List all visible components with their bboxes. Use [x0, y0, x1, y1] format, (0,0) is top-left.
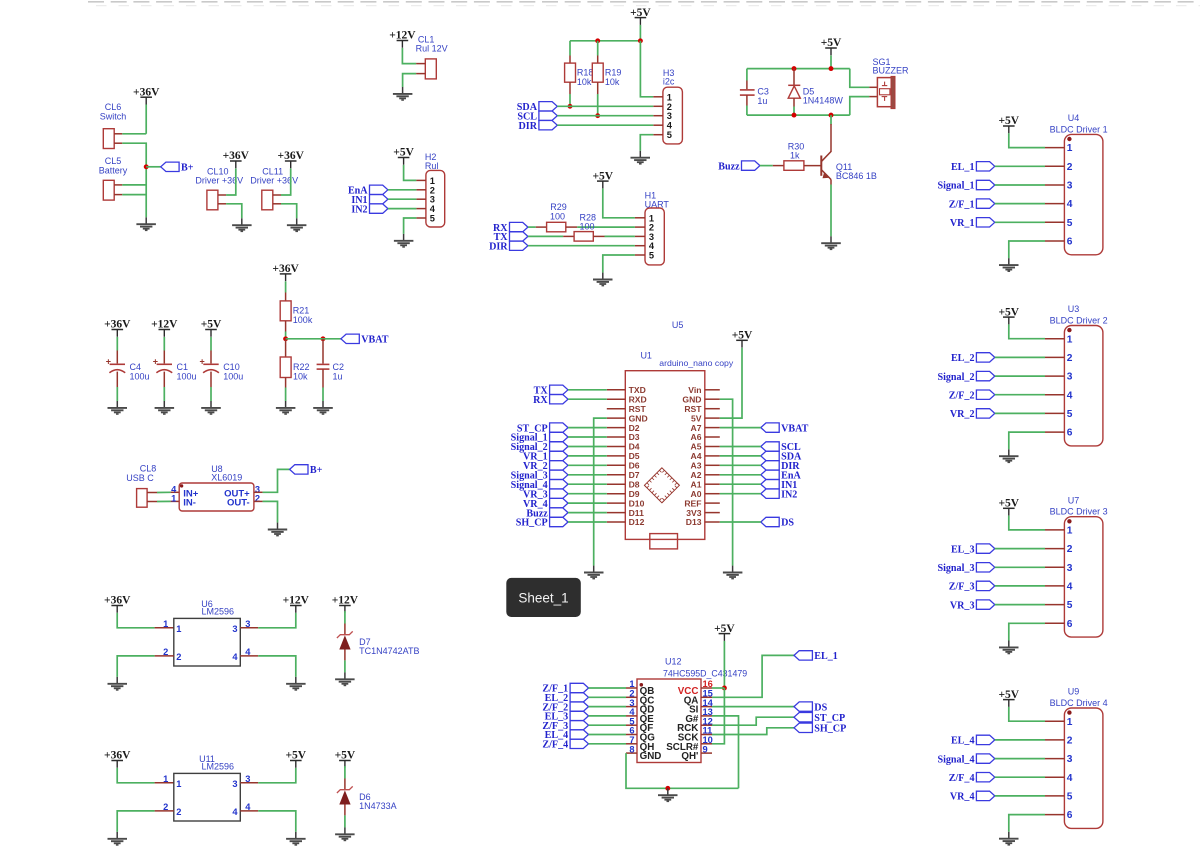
svg-text:EL_1: EL_1 — [814, 651, 838, 662]
svg-text:A1: A1 — [691, 479, 702, 489]
svg-text:1N4733A: 1N4733A — [359, 801, 397, 811]
svg-text:1u: 1u — [333, 371, 343, 381]
svg-text:5: 5 — [649, 251, 654, 261]
svg-text:100u: 100u — [130, 371, 150, 381]
svg-text:1: 1 — [163, 619, 168, 629]
svg-text:+12V: +12V — [332, 595, 359, 607]
svg-text:+36V: +36V — [104, 750, 131, 762]
svg-text:3: 3 — [1067, 372, 1073, 383]
svg-text:C2: C2 — [333, 362, 345, 372]
svg-text:4: 4 — [232, 652, 238, 662]
svg-text:3: 3 — [667, 111, 672, 121]
svg-text:5: 5 — [430, 214, 435, 224]
svg-text:U3: U3 — [1068, 304, 1080, 314]
svg-text:D13: D13 — [686, 517, 702, 527]
svg-text:B+: B+ — [310, 465, 323, 476]
svg-text:LM2596: LM2596 — [202, 762, 235, 772]
svg-text:IN-: IN- — [183, 497, 196, 508]
svg-text:2: 2 — [176, 807, 181, 817]
svg-text:Battery: Battery — [99, 166, 128, 176]
svg-text:4: 4 — [232, 807, 238, 817]
svg-text:+5V: +5V — [998, 306, 1019, 318]
svg-text:Signal_4: Signal_4 — [937, 754, 974, 765]
svg-text:+5V: +5V — [998, 689, 1019, 701]
svg-text:+36V: +36V — [104, 595, 131, 607]
svg-text:arduino_nano copy: arduino_nano copy — [659, 358, 734, 368]
svg-text:4: 4 — [1067, 199, 1073, 210]
svg-text:+5V: +5V — [714, 623, 735, 635]
svg-text:EL_4: EL_4 — [951, 736, 975, 747]
svg-text:Z/F_4: Z/F_4 — [542, 740, 568, 751]
svg-text:4: 4 — [1067, 773, 1073, 784]
svg-text:+5V: +5V — [393, 147, 414, 159]
svg-text:+: + — [106, 357, 111, 367]
svg-text:EL_2: EL_2 — [951, 353, 975, 364]
svg-text:1: 1 — [176, 624, 181, 634]
svg-text:5: 5 — [1067, 792, 1073, 803]
svg-text:TC1N4742ATB: TC1N4742ATB — [359, 646, 419, 656]
svg-text:A6: A6 — [691, 432, 702, 442]
svg-text:C3: C3 — [757, 87, 769, 97]
svg-text:4: 4 — [667, 121, 673, 131]
svg-text:100u: 100u — [177, 371, 197, 381]
svg-text:+: + — [200, 357, 205, 367]
svg-text:i2c: i2c — [663, 76, 675, 86]
svg-text:BUZZER: BUZZER — [873, 66, 910, 76]
svg-text:+12V: +12V — [283, 595, 310, 607]
svg-text:1k: 1k — [790, 151, 800, 161]
svg-text:1: 1 — [1067, 143, 1073, 154]
svg-text:+5V: +5V — [821, 37, 842, 49]
svg-text:EL_3: EL_3 — [951, 544, 975, 555]
svg-text:XL6019: XL6019 — [211, 473, 242, 483]
svg-text:5: 5 — [1067, 409, 1073, 420]
svg-text:1: 1 — [163, 774, 168, 784]
svg-text:SH_CP: SH_CP — [516, 518, 548, 529]
svg-text:BLDC Driver 3: BLDC Driver 3 — [1050, 507, 1108, 517]
svg-text:+5V: +5V — [201, 319, 222, 331]
svg-text:R29: R29 — [550, 202, 567, 212]
svg-text:9: 9 — [703, 744, 708, 754]
svg-text:Rul: Rul — [425, 161, 439, 171]
svg-text:D3: D3 — [629, 432, 640, 442]
svg-text:1: 1 — [171, 494, 176, 504]
svg-text:A3: A3 — [691, 461, 702, 471]
svg-text:BC846 1B: BC846 1B — [836, 171, 877, 181]
svg-text:5: 5 — [667, 130, 672, 140]
svg-text:6: 6 — [1067, 810, 1073, 821]
svg-text:100k: 100k — [293, 315, 313, 325]
svg-text:IN2: IN2 — [351, 204, 367, 215]
svg-text:Z/F_1: Z/F_1 — [949, 199, 975, 210]
svg-text:2: 2 — [1067, 353, 1073, 364]
svg-text:Switch: Switch — [100, 112, 127, 122]
svg-text:+5V: +5V — [630, 7, 651, 19]
svg-text:+36V: +36V — [272, 263, 299, 275]
svg-text:1: 1 — [1067, 526, 1073, 537]
svg-text:VR_4: VR_4 — [950, 792, 975, 803]
svg-text:GND: GND — [629, 413, 648, 423]
svg-text:+: + — [153, 357, 158, 367]
svg-text:10k: 10k — [577, 77, 592, 87]
svg-text:74HC595D_C431479: 74HC595D_C431479 — [663, 669, 747, 679]
svg-text:2: 2 — [1067, 736, 1073, 747]
svg-text:+5V: +5V — [998, 115, 1019, 127]
svg-text:VR_3: VR_3 — [950, 600, 975, 611]
svg-text:5V: 5V — [691, 413, 702, 423]
svg-text:U7: U7 — [1068, 495, 1080, 505]
svg-text:B+: B+ — [181, 163, 194, 174]
svg-text:CL8: CL8 — [140, 464, 157, 474]
svg-text:Signal_2: Signal_2 — [937, 372, 974, 383]
svg-text:1: 1 — [1067, 717, 1073, 728]
svg-text:GND: GND — [640, 751, 662, 762]
svg-text:Z/F_3: Z/F_3 — [949, 582, 975, 593]
svg-text:RXD: RXD — [629, 394, 647, 404]
svg-text:VBAT: VBAT — [781, 423, 809, 434]
svg-text:+5V: +5V — [998, 498, 1019, 510]
svg-text:DIR: DIR — [518, 121, 537, 132]
svg-text:DIR: DIR — [489, 241, 508, 252]
svg-text:2: 2 — [1067, 162, 1073, 173]
svg-text:D6: D6 — [629, 461, 640, 471]
svg-text:EL_1: EL_1 — [951, 162, 975, 173]
svg-text:+5V: +5V — [592, 170, 613, 182]
svg-text:VR_1: VR_1 — [950, 218, 975, 229]
svg-text:+36V: +36V — [278, 150, 305, 162]
svg-text:VR_2: VR_2 — [950, 409, 975, 420]
svg-text:5: 5 — [1067, 600, 1073, 611]
svg-text:100: 100 — [550, 212, 565, 222]
svg-text:VBAT: VBAT — [361, 335, 389, 346]
svg-text:10k: 10k — [293, 371, 308, 381]
svg-text:1: 1 — [176, 779, 181, 789]
svg-text:5: 5 — [1067, 218, 1073, 229]
svg-text:D8: D8 — [629, 479, 640, 489]
svg-text:Z/F_2: Z/F_2 — [949, 390, 975, 401]
svg-text:6: 6 — [1067, 619, 1073, 630]
svg-text:USB C: USB C — [126, 473, 154, 483]
svg-text:IN2: IN2 — [781, 489, 797, 500]
svg-text:C4: C4 — [130, 362, 142, 372]
svg-text:BLDC Driver 2: BLDC Driver 2 — [1050, 316, 1108, 326]
svg-text:U9: U9 — [1068, 687, 1080, 697]
svg-text:U5: U5 — [672, 320, 684, 330]
svg-text:6: 6 — [1067, 237, 1073, 248]
svg-text:R22: R22 — [293, 362, 310, 372]
svg-text:R21: R21 — [293, 305, 310, 315]
svg-text:3: 3 — [1067, 563, 1073, 574]
svg-text:DS: DS — [814, 702, 827, 713]
svg-text:4: 4 — [1067, 582, 1073, 593]
svg-text:+36V: +36V — [133, 86, 160, 98]
svg-text:4: 4 — [1067, 390, 1073, 401]
svg-text:LM2596: LM2596 — [202, 607, 235, 617]
svg-text:Buzz: Buzz — [718, 161, 740, 172]
svg-text:8: 8 — [629, 744, 634, 754]
svg-text:U12: U12 — [665, 657, 682, 667]
svg-text:C1: C1 — [177, 362, 189, 372]
svg-text:Sheet_1: Sheet_1 — [518, 591, 568, 606]
svg-text:3: 3 — [232, 624, 237, 634]
svg-text:100: 100 — [579, 221, 594, 231]
svg-text:C10: C10 — [223, 362, 240, 372]
svg-text:U1: U1 — [640, 351, 652, 361]
svg-text:REF: REF — [684, 498, 701, 508]
svg-text:1u: 1u — [757, 96, 767, 106]
svg-text:+12V: +12V — [389, 30, 416, 42]
svg-text:1: 1 — [667, 92, 672, 102]
svg-text:3: 3 — [232, 779, 237, 789]
svg-text:CL5: CL5 — [105, 156, 122, 166]
svg-text:QH': QH' — [681, 751, 698, 762]
svg-text:D12: D12 — [629, 517, 645, 527]
svg-text:1N4148W: 1N4148W — [803, 95, 844, 105]
svg-text:U4: U4 — [1068, 113, 1080, 123]
svg-text:DS: DS — [781, 518, 794, 529]
svg-text:ST_CP: ST_CP — [814, 713, 845, 724]
svg-text:Rul 12V: Rul 12V — [416, 43, 448, 53]
svg-text:OUT-: OUT- — [227, 497, 250, 508]
svg-text:+5V: +5V — [285, 750, 306, 762]
svg-text:BLDC Driver 1: BLDC Driver 1 — [1050, 124, 1108, 134]
svg-text:6: 6 — [1067, 428, 1073, 439]
svg-text:+36V: +36V — [223, 150, 250, 162]
svg-text:SH_CP: SH_CP — [814, 724, 846, 735]
svg-text:Signal_1: Signal_1 — [937, 181, 974, 192]
svg-text:10k: 10k — [605, 77, 620, 87]
svg-text:+36V: +36V — [104, 319, 131, 331]
svg-text:3: 3 — [1067, 181, 1073, 192]
svg-text:100u: 100u — [223, 371, 243, 381]
svg-text:+12V: +12V — [151, 319, 178, 331]
svg-text:+5V: +5V — [335, 750, 356, 762]
svg-text:BLDC Driver 4: BLDC Driver 4 — [1050, 698, 1108, 708]
svg-text:Signal_3: Signal_3 — [937, 563, 974, 574]
svg-text:2: 2 — [1067, 544, 1073, 555]
svg-text:2: 2 — [176, 652, 181, 662]
svg-text:1: 1 — [1067, 334, 1073, 345]
svg-text:D10: D10 — [629, 498, 645, 508]
svg-text:RX: RX — [533, 395, 548, 406]
svg-text:CL6: CL6 — [105, 102, 122, 112]
svg-text:GND: GND — [682, 394, 701, 404]
svg-text:+5V: +5V — [732, 330, 753, 342]
svg-text:3: 3 — [1067, 754, 1073, 765]
svg-text:Z/F_4: Z/F_4 — [949, 773, 975, 784]
